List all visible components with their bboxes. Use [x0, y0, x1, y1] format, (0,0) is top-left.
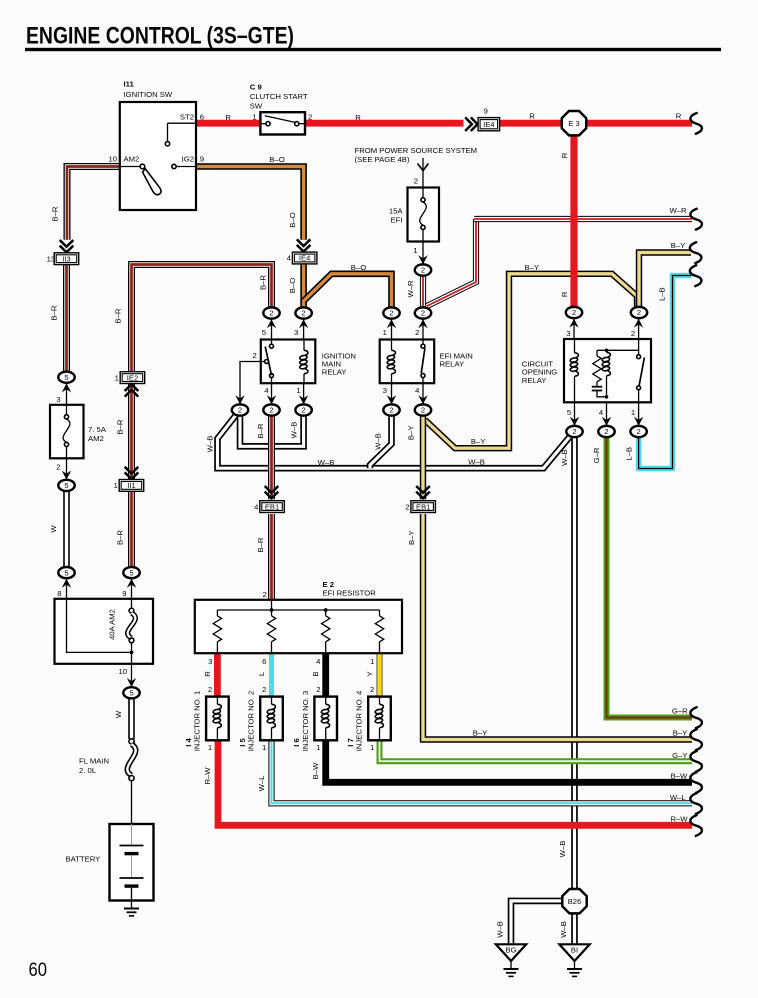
- svg-text:2: 2: [604, 427, 608, 436]
- svg-text:IE4: IE4: [299, 254, 310, 263]
- svg-text:B–Y: B–Y: [525, 263, 540, 272]
- svg-text:R: R: [676, 112, 682, 121]
- svg-text:W–B: W–B: [468, 457, 485, 466]
- wire R clutch start SW to IE4: [305, 120, 464, 127]
- svg-text:2: 2: [389, 309, 393, 318]
- EFI resistor element bottom leads: [217, 642, 379, 653]
- injector no.4 coil: [375, 697, 384, 741]
- fusible link FL MAIN 2.0L: [127, 739, 135, 824]
- arrow into connector fuse EFI: [418, 255, 427, 264]
- svg-text:B–Y: B–Y: [473, 728, 488, 737]
- node E 3: [562, 111, 586, 135]
- connector oval 5 pin9: [123, 567, 139, 578]
- page break wire W-L: [690, 793, 702, 814]
- svg-text:R: R: [560, 291, 569, 297]
- svg-text:I 5: I 5: [238, 738, 247, 747]
- wire B-R IE2 to II1: [128, 384, 135, 480]
- circuit opening relay coil L2: [602, 350, 611, 397]
- ground below battery: [124, 901, 139, 916]
- connector oval efi relay pin2: [415, 307, 431, 318]
- svg-text:1: 1: [631, 408, 635, 417]
- connector oval 5 pin8: [58, 567, 74, 578]
- svg-text:B: B: [311, 671, 320, 676]
- svg-text:L–B: L–B: [625, 447, 634, 461]
- fusible link 40A AM2 box: [55, 599, 154, 664]
- svg-text:4: 4: [287, 254, 291, 263]
- svg-text:W–B: W–B: [559, 921, 568, 938]
- svg-text:6: 6: [200, 113, 204, 122]
- wire W-B B26 to BG ground: [511, 901, 563, 944]
- svg-text:I 6: I 6: [292, 738, 301, 747]
- svg-text:R: R: [529, 112, 535, 121]
- svg-text:2: 2: [301, 309, 305, 318]
- page break wire B-W: [690, 772, 702, 793]
- svg-text:W–R: W–R: [406, 280, 415, 298]
- svg-text:W–B: W–B: [290, 422, 299, 439]
- svg-text:B–Y: B–Y: [671, 241, 686, 250]
- wire W-R horizontal to page break: [474, 216, 692, 222]
- EFI resistor element 3: [322, 616, 330, 642]
- clutch start switch contacts: [260, 116, 305, 126]
- svg-text:1: 1: [370, 657, 374, 666]
- connector oval co relay pin2: [631, 307, 647, 318]
- svg-text:I 7: I 7: [346, 738, 355, 747]
- svg-text:IE4: IE4: [483, 120, 494, 129]
- svg-text:BI: BI: [571, 946, 578, 955]
- svg-text:W–R: W–R: [669, 206, 687, 215]
- svg-text:2: 2: [414, 176, 418, 185]
- ignition main relay coil: [299, 340, 308, 384]
- wire B-R II1 to 40A AM2 pin9: [128, 491, 135, 567]
- svg-text:B–Y: B–Y: [471, 437, 486, 446]
- ground BI: [567, 961, 582, 976]
- wire B resistor to injector no.3: [322, 652, 329, 696]
- junction connector II1: [114, 480, 144, 492]
- arrow into connector below fuse AM2: [62, 471, 71, 480]
- svg-text:1: 1: [383, 328, 387, 337]
- svg-text:B–R: B–R: [258, 275, 267, 290]
- svg-text:15A: 15A: [389, 207, 404, 216]
- svg-text:60: 60: [29, 960, 48, 981]
- wire B-O IE4 to ignition main relay pin3: [300, 264, 307, 307]
- wire R E3 down to circuit opening relay pin3: [570, 135, 577, 308]
- wire B-Y EFI relay pin4 to EB1: [420, 416, 426, 499]
- svg-text:9: 9: [200, 155, 204, 164]
- connector oval 5 below 7.5A fuse: [58, 480, 74, 491]
- wire L resistor to injector no.2: [269, 652, 274, 696]
- svg-text:B–R: B–R: [256, 537, 265, 552]
- svg-text:I11: I11: [124, 80, 135, 89]
- page break wire B-Y top: [690, 242, 702, 263]
- svg-text:IGNITION SW: IGNITION SW: [124, 90, 173, 99]
- page break wire W-R: [690, 209, 702, 230]
- connector oval ign relay pin5: [263, 307, 279, 318]
- svg-text:1: 1: [114, 481, 118, 490]
- svg-text:R: R: [560, 152, 569, 158]
- svg-text:C 9: C 9: [250, 82, 262, 91]
- page break wire G-R: [690, 707, 702, 728]
- junction connector IE4 (mid): [287, 252, 317, 264]
- arrow from power source: [418, 158, 429, 188]
- svg-text:13: 13: [47, 254, 55, 263]
- svg-text:3: 3: [566, 329, 570, 338]
- wire R ignition SW ST2 to clutch start SW: [196, 120, 260, 127]
- node B26: [562, 889, 586, 913]
- wire L-B circuit opening relay pin1 loop to page break: [639, 276, 692, 469]
- svg-text:2: 2: [253, 351, 257, 360]
- ignition switch AM2 contact and key lever: [120, 164, 161, 195]
- svg-text:W–B: W–B: [206, 436, 215, 453]
- svg-text:8: 8: [57, 589, 61, 598]
- lead into 40A AM2 pin8: [66, 579, 68, 599]
- connector oval co relay pin4: [598, 426, 614, 437]
- junction arrows into IE4 mid: [297, 239, 311, 251]
- injector no.3 I 6 box: [314, 697, 337, 741]
- junction arrows into II1: [125, 467, 139, 479]
- junction arrows into EB1 right: [416, 486, 430, 498]
- wire B-Y EFI relay pin4 branch to circuit opening relay pin2: [425, 274, 637, 448]
- wire B-R ignition SW AM2 to connector II3: [67, 167, 120, 240]
- lead 40A AM2 pin10: [131, 664, 133, 687]
- svg-text:2: 2: [405, 502, 409, 511]
- wire W-B bus ignition relay pin2 to circuit opening relay pin5: [218, 415, 570, 468]
- junction arrows into IE4: [465, 117, 477, 131]
- svg-text:W–B: W–B: [560, 449, 569, 466]
- injector no.4 I 7 box: [368, 697, 391, 741]
- svg-text:ST2: ST2: [180, 113, 194, 122]
- page break wire R: [690, 113, 702, 134]
- svg-text:IE2: IE2: [127, 373, 138, 382]
- wire B-R ignition relay pin4 to EB1: [268, 416, 275, 499]
- svg-text:B–R: B–R: [50, 305, 59, 320]
- ignition switch ST2 contact: [165, 123, 196, 146]
- svg-text:2: 2: [637, 308, 641, 317]
- svg-text:SW: SW: [250, 102, 263, 111]
- svg-text:B–Y: B–Y: [407, 426, 416, 441]
- wire W-B ignition relay pin1 to pin2 link: [240, 416, 304, 446]
- svg-text:5: 5: [64, 481, 68, 490]
- junction connector IE2: [115, 372, 145, 384]
- ignition main relay pin leads: [272, 319, 304, 404]
- svg-text:2: 2: [421, 406, 425, 415]
- lead into 40A AM2 pin9: [131, 579, 133, 599]
- svg-text:BATTERY: BATTERY: [66, 854, 101, 863]
- svg-text:W: W: [49, 525, 58, 533]
- svg-text:W–L: W–L: [257, 775, 266, 792]
- svg-text:EB1: EB1: [265, 502, 279, 511]
- svg-text:5: 5: [64, 568, 68, 577]
- svg-text:B–R: B–R: [116, 419, 125, 434]
- svg-text:1: 1: [262, 743, 266, 752]
- svg-text:RELAY: RELAY: [440, 359, 465, 368]
- EFI main relay pin leads: [392, 319, 424, 404]
- junction arrows into IE2: [125, 384, 139, 396]
- circuit opening relay box: [564, 339, 651, 402]
- arrow into connector below 40A AM2: [127, 678, 136, 687]
- svg-text:2: 2: [572, 427, 576, 436]
- svg-text:RELAY: RELAY: [522, 376, 547, 385]
- svg-text:2: 2: [269, 406, 273, 415]
- svg-text:EFI RESISTOR: EFI RESISTOR: [323, 589, 377, 598]
- svg-text:3: 3: [294, 328, 298, 337]
- wire B-Y from page break to circuit opening relay pin2: [639, 253, 691, 308]
- connector oval efi relay pin4: [415, 404, 431, 415]
- arrow co relay pin1: [634, 417, 643, 426]
- battery box: [110, 824, 154, 901]
- wire R resistor to injector no.1: [214, 652, 221, 696]
- ignition main relay box: [261, 340, 316, 384]
- svg-text:1: 1: [370, 743, 374, 752]
- svg-text:2: 2: [636, 427, 640, 436]
- svg-text:L: L: [257, 671, 266, 676]
- svg-text:10: 10: [108, 155, 117, 164]
- junction connector EB1 (right): [405, 501, 435, 513]
- EFI resistor E2 box: [195, 600, 402, 653]
- svg-text:7. 5A: 7. 5A: [88, 425, 107, 434]
- arrow ign relay pin3: [299, 319, 308, 328]
- wire B-O branch to EFI main relay pin1: [304, 274, 392, 307]
- EFI main relay box: [380, 340, 435, 384]
- svg-text:(SEE PAGE 4B): (SEE PAGE 4B): [355, 155, 410, 164]
- wire W-R fuse EFI to EFI main relay pin2: [420, 276, 426, 307]
- ground connector BI: [559, 944, 589, 961]
- svg-text:B–R: B–R: [256, 423, 265, 438]
- ground connector BG: [496, 944, 526, 961]
- svg-text:10: 10: [118, 667, 127, 676]
- svg-text:1: 1: [208, 743, 212, 752]
- connector oval co relay pin1: [630, 426, 646, 437]
- svg-text:5: 5: [64, 373, 68, 382]
- fuse 7.5A AM2: [50, 405, 84, 459]
- wire B-R II3 to 7.5A fuse connector: [63, 265, 70, 372]
- svg-text:L–B: L–B: [657, 287, 666, 301]
- svg-text:B–R: B–R: [116, 530, 125, 545]
- ignition main relay pin2 lead: [240, 362, 265, 405]
- svg-text:AM2: AM2: [88, 434, 104, 443]
- wire W fuse AM2 to connector pin 8: [63, 492, 70, 567]
- svg-text:W–B: W–B: [318, 458, 335, 467]
- arrow ign relay pin5: [267, 319, 276, 328]
- lead into 7.5A fuse: [66, 383, 68, 404]
- svg-text:2: 2: [208, 685, 212, 694]
- arrow into oval pin8: [62, 579, 71, 588]
- svg-text:B–Y: B–Y: [673, 729, 688, 738]
- svg-text:R–W: R–W: [670, 814, 688, 823]
- wire Y resistor to injector no.4: [377, 652, 383, 696]
- svg-text:B–W: B–W: [311, 762, 320, 779]
- svg-text:B26: B26: [568, 897, 582, 906]
- page break wire G-Y: [690, 751, 702, 772]
- svg-text:B–O: B–O: [288, 278, 297, 293]
- wire W-R branch vertical and diagonal: [427, 219, 476, 306]
- injector no.1 I 4 box: [206, 697, 229, 741]
- arrow co relay pin3: [569, 319, 578, 328]
- wire R-W injector no.1 to page break: [218, 740, 692, 825]
- svg-text:5: 5: [129, 568, 133, 577]
- arrow efi relay pin1: [387, 319, 396, 328]
- arrow into oval below II3: [62, 383, 71, 392]
- svg-text:2: 2: [415, 328, 419, 337]
- svg-text:4: 4: [599, 408, 604, 417]
- connector oval co relay pin3: [566, 307, 582, 318]
- svg-text:FL MAIN: FL MAIN: [79, 756, 109, 765]
- svg-text:2: 2: [301, 406, 305, 415]
- connector oval 5 below II3: [58, 372, 74, 383]
- wire W 40A AM2 pin10 to FL MAIN: [128, 699, 135, 739]
- lead fuse AM2 pin2: [66, 458, 68, 479]
- svg-text:INJECTOR NO. 1: INJECTOR NO. 1: [193, 691, 202, 752]
- svg-text:W–B: W–B: [374, 433, 383, 450]
- svg-text:E 3: E 3: [568, 119, 579, 128]
- junction connector II3: [47, 253, 79, 265]
- connector oval ign relay pin2: [232, 404, 248, 415]
- svg-text:9: 9: [484, 106, 488, 115]
- svg-text:5: 5: [262, 328, 266, 337]
- wire R E3 to page break: [587, 120, 693, 127]
- junction connector EB1 (left): [254, 501, 284, 513]
- svg-text:Y: Y: [366, 671, 375, 676]
- ignition switch I11 box: [120, 102, 196, 210]
- page break wire L-B: [690, 265, 702, 286]
- svg-text:B–W: B–W: [671, 771, 688, 780]
- wire G-R circuit opening relay pin4 to page break: [607, 436, 693, 718]
- svg-text:1: 1: [115, 373, 119, 382]
- EFI resistor element 4: [375, 616, 383, 642]
- connector oval efi relay pin3: [383, 404, 399, 415]
- svg-text:4: 4: [415, 386, 420, 395]
- circuit opening relay coil L1: [570, 339, 579, 402]
- connector oval co relay pin5: [566, 426, 582, 437]
- svg-text:2: 2: [370, 685, 374, 694]
- EFI main relay coil: [387, 340, 396, 384]
- svg-text:R: R: [355, 113, 361, 122]
- wire B-Y EB1 down and right to page break: [423, 514, 692, 740]
- svg-text:B–R: B–R: [51, 206, 60, 221]
- page break wire B-Y bottom: [690, 729, 702, 750]
- svg-text:2: 2: [389, 406, 393, 415]
- junction arrows into EB1 left: [265, 486, 279, 498]
- svg-text:W–L: W–L: [670, 793, 687, 802]
- title underline: [25, 48, 721, 51]
- injector no.1 coil: [213, 697, 222, 741]
- ignition main relay switch: [265, 340, 274, 384]
- svg-text:2. 0L: 2. 0L: [79, 766, 97, 775]
- junction arrows into II3: [60, 240, 74, 252]
- wire B-W injector no.3 to page break: [326, 740, 692, 782]
- wire W-B circuit opening relay pin5 to B26: [571, 436, 578, 889]
- ground BG: [504, 961, 519, 976]
- svg-text:3: 3: [56, 395, 60, 404]
- svg-text:3: 3: [208, 657, 212, 666]
- wire R IE4 to E3: [500, 120, 563, 127]
- fuse 15A EFI: [408, 188, 440, 242]
- svg-text:B–Y: B–Y: [407, 530, 416, 545]
- circuit opening relay pin leads: [574, 319, 639, 426]
- svg-text:2: 2: [263, 590, 267, 599]
- injector no.2 I 5 box: [260, 697, 283, 741]
- svg-text:IG2: IG2: [182, 155, 194, 164]
- arrow ign relay pin1: [299, 395, 308, 404]
- arrow efi relay pin3: [387, 395, 396, 404]
- svg-text:II1: II1: [127, 481, 135, 490]
- clutch start switch C9 box: [260, 112, 305, 134]
- svg-text:RELAY: RELAY: [322, 368, 347, 377]
- circuit opening relay internal network: [597, 339, 644, 402]
- svg-text:G–R: G–R: [592, 447, 601, 463]
- svg-text:ENGINE CONTROL (3S–GTE): ENGINE CONTROL (3S–GTE): [26, 23, 294, 50]
- svg-text:BG: BG: [506, 946, 517, 955]
- arrow co relay pin2: [634, 319, 643, 328]
- arrow ign relay pin4: [267, 395, 276, 404]
- svg-text:4: 4: [316, 657, 321, 666]
- svg-text:4: 4: [254, 502, 258, 511]
- svg-text:I 4: I 4: [184, 738, 193, 747]
- connector oval ign relay pin1: [295, 404, 311, 415]
- connector oval efi relay pin1: [383, 307, 399, 318]
- svg-text:40A AM2: 40A AM2: [108, 609, 117, 640]
- wire B-R EB1 to EFI resistor pin2: [268, 514, 275, 600]
- svg-text:2: 2: [238, 406, 242, 415]
- svg-text:2: 2: [262, 685, 266, 694]
- svg-text:1: 1: [252, 113, 256, 122]
- connector oval 5 pin10: [123, 687, 139, 698]
- wire B-R IE2 up and to ignition main relay pin5: [132, 265, 272, 372]
- svg-text:5: 5: [567, 408, 571, 417]
- EFI resistor element 1: [213, 616, 221, 642]
- wire W-B EFI relay pin3 to bus: [370, 416, 392, 468]
- svg-text:R: R: [203, 671, 212, 677]
- svg-text:INJECTOR NO. 2: INJECTOR NO. 2: [247, 691, 256, 752]
- svg-text:1: 1: [296, 386, 300, 395]
- ignition switch IG2 contact: [172, 164, 196, 168]
- svg-text:W–B: W–B: [558, 841, 567, 858]
- svg-text:R: R: [225, 113, 231, 122]
- injector no.2 coil: [267, 697, 276, 741]
- svg-text:2: 2: [572, 308, 576, 317]
- svg-text:G–Y: G–Y: [672, 751, 687, 760]
- svg-text:5: 5: [129, 689, 133, 698]
- svg-text:B–O: B–O: [288, 212, 297, 227]
- svg-text:EB1: EB1: [416, 502, 430, 511]
- svg-text:EFI: EFI: [391, 216, 403, 225]
- svg-text:9: 9: [122, 589, 126, 598]
- connector oval ign relay pin3: [295, 307, 311, 318]
- EFI main relay switch: [421, 340, 425, 384]
- svg-text:2: 2: [421, 266, 425, 275]
- svg-text:2: 2: [631, 329, 635, 338]
- svg-text:2: 2: [308, 113, 312, 122]
- svg-text:2: 2: [316, 685, 320, 694]
- EFI resistor internal bus: [217, 600, 379, 616]
- wire W-L injector no.2 to page break: [272, 740, 693, 803]
- svg-text:II3: II3: [62, 254, 70, 263]
- svg-text:3: 3: [383, 386, 387, 395]
- svg-text:B–R: B–R: [114, 308, 123, 323]
- svg-text:INJECTOR NO. 4: INJECTOR NO. 4: [355, 690, 364, 751]
- arrow efi relay pin2: [418, 319, 427, 328]
- EFI resistor element 2: [267, 616, 275, 642]
- svg-text:W: W: [114, 710, 123, 718]
- connector oval ign relay pin4: [263, 404, 279, 415]
- svg-text:G–R: G–R: [672, 707, 688, 716]
- circuit opening relay resistor: [593, 356, 601, 382]
- svg-text:B–O: B–O: [269, 155, 284, 164]
- svg-text:R–W: R–W: [203, 767, 212, 785]
- svg-text:FROM POWER SOURCE SYSTEM: FROM POWER SOURCE SYSTEM: [355, 146, 478, 155]
- svg-text:CLUTCH START: CLUTCH START: [250, 92, 308, 101]
- svg-text:6: 6: [262, 657, 266, 666]
- svg-text:INJECTOR NO. 3: INJECTOR NO. 3: [301, 691, 310, 752]
